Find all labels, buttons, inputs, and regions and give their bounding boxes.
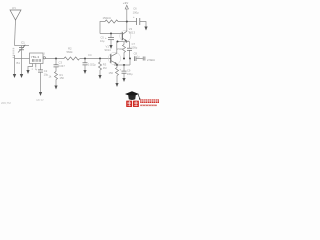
ground xyxy=(54,86,57,90)
ground xyxy=(26,70,29,74)
wire antenna lead xyxy=(15,20,16,46)
resistor R6 xyxy=(116,65,119,83)
node J8 xyxy=(123,58,125,60)
resistor R3 xyxy=(99,59,102,76)
svg-text:YBL-3: YBL-3 xyxy=(31,55,40,59)
node J7 xyxy=(123,64,125,66)
svg-text:560k: 560k xyxy=(67,50,74,54)
wire main bus 2 xyxy=(80,58,111,60)
power +3V xyxy=(125,5,128,21)
svg-text:0.022μ: 0.022μ xyxy=(88,63,96,67)
resistor R4 series xyxy=(105,20,118,23)
capacitor C8 output xyxy=(134,56,142,61)
wire U1 pin4 down xyxy=(40,64,42,70)
wire C2 to ground xyxy=(40,72,42,92)
wire V1 collector up xyxy=(116,42,118,54)
wire top rail xyxy=(118,21,136,23)
ground xyxy=(109,45,112,49)
svg-text:C5: C5 xyxy=(101,36,105,40)
ground xyxy=(83,70,86,74)
logo url xyxy=(140,105,157,107)
node J10 xyxy=(110,33,112,35)
svg-text:+3V: +3V xyxy=(123,1,128,5)
wire collector rail xyxy=(117,41,130,43)
logo text dianzi xyxy=(140,99,159,103)
svg-text:C7: C7 xyxy=(132,42,136,46)
logo text jiepei xyxy=(126,101,139,107)
wire U1 pin1 xyxy=(28,64,33,71)
svg-text:9013: 9013 xyxy=(129,31,136,35)
svg-text:+: + xyxy=(36,68,38,72)
ground xyxy=(144,27,147,31)
ground xyxy=(13,74,16,78)
svg-text:C2: C2 xyxy=(44,69,48,73)
svg-text:B1: B1 xyxy=(17,61,21,65)
ground xyxy=(20,74,23,78)
node J5 xyxy=(125,41,127,43)
svg-text:0.047: 0.047 xyxy=(58,64,65,68)
capacitor C7 electrolytic xyxy=(127,42,132,59)
capacitor C2 electrolytic xyxy=(36,68,44,73)
node pin3 circle xyxy=(43,57,45,59)
svg-text:150kΩ: 150kΩ xyxy=(103,16,111,20)
antenna W1 xyxy=(10,10,21,20)
svg-text:100μ: 100μ xyxy=(127,72,133,76)
svg-text:2.5kΩ: 2.5kΩ xyxy=(147,58,155,62)
ground xyxy=(115,83,118,87)
wire coil to ground xyxy=(14,55,16,74)
resistor R1 xyxy=(55,67,58,85)
capacitor C4 xyxy=(83,59,88,71)
wire J9 to emitter rail xyxy=(129,59,131,66)
resistor R5 xyxy=(123,42,126,59)
svg-text:150: 150 xyxy=(60,76,65,80)
capacitor C3 xyxy=(54,59,59,67)
capacitor C5 electrolytic xyxy=(105,34,114,46)
capacitor C6 electrolytic xyxy=(133,15,140,25)
node J9 xyxy=(129,58,131,60)
wire C1 to ground xyxy=(21,59,23,75)
node J2 xyxy=(84,58,86,60)
wire V2 collector up xyxy=(126,22,128,32)
wire tank bottom rail xyxy=(15,58,30,60)
svg-text:W1: W1 xyxy=(12,6,16,10)
wire supply left corner xyxy=(100,22,105,34)
node J11 xyxy=(126,21,128,23)
wire V1 emitter down xyxy=(116,64,118,65)
earphone BE xyxy=(143,57,145,61)
logo jiepei cap icon xyxy=(125,91,140,100)
resistor R2 series xyxy=(64,57,80,60)
svg-text:10μ: 10μ xyxy=(100,39,105,43)
node J4 xyxy=(117,41,119,43)
svg-text:C1: C1 xyxy=(21,41,25,45)
svg-text:C3: C3 xyxy=(59,61,63,65)
wire V2 base xyxy=(100,33,122,35)
ground xyxy=(39,92,42,96)
wire tank top xyxy=(15,45,30,47)
ground xyxy=(98,75,101,79)
svg-text:150Ω: 150Ω xyxy=(117,47,124,51)
node J3 xyxy=(99,58,101,60)
wire main bus xyxy=(45,58,64,60)
wire C6 to ground xyxy=(140,22,146,27)
inductor B1 coil xyxy=(13,48,15,58)
svg-text:C6: C6 xyxy=(133,7,137,11)
capacitor C9 electrolytic xyxy=(120,65,127,78)
ground xyxy=(122,78,125,82)
svg-text:R1: R1 xyxy=(60,73,64,77)
transistor V1 xyxy=(108,52,120,64)
svg-text:GB 3V: GB 3V xyxy=(36,98,44,102)
wire emitter rail xyxy=(114,64,130,66)
svg-text:150: 150 xyxy=(109,71,114,75)
svg-text:100μ: 100μ xyxy=(133,10,139,14)
svg-text:206,7M: 206,7M xyxy=(1,101,11,105)
svg-text:C4: C4 xyxy=(88,53,92,57)
op-amp U1 YBL-3 block xyxy=(30,53,44,64)
capacitor C1 (variable) xyxy=(18,45,26,59)
wire U1 pin2 stub xyxy=(35,64,37,68)
svg-text:9014: 9014 xyxy=(105,48,112,52)
node J1 xyxy=(55,58,57,60)
svg-text:100μ: 100μ xyxy=(131,45,137,49)
svg-text:R3: R3 xyxy=(103,63,107,67)
node J6 xyxy=(116,64,118,66)
transistor V2 xyxy=(120,30,131,41)
